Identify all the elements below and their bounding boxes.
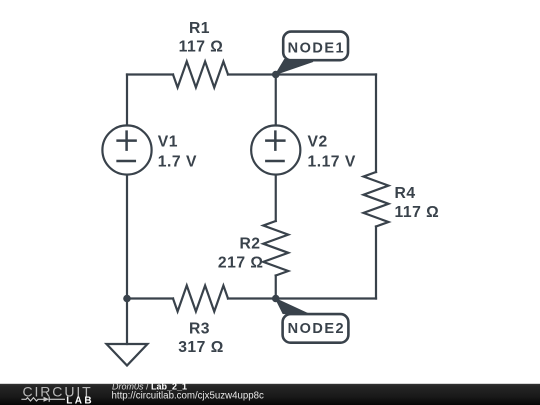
- svg-text:V2: V2: [308, 134, 328, 151]
- svg-text:NODE1: NODE1: [288, 40, 345, 56]
- svg-text:117 Ω: 117 Ω: [395, 204, 440, 221]
- node junction NODE1 dot: [272, 71, 280, 79]
- wire top-right segment: [228, 73, 376, 75]
- svg-text:R4: R4: [395, 185, 416, 202]
- svg-text:LAB: LAB: [66, 396, 94, 405]
- wire top-left segment: [127, 73, 173, 75]
- svg-text:317 Ω: 317 Ω: [178, 339, 224, 356]
- svg-text:117 Ω: 117 Ω: [179, 39, 224, 56]
- wire right branch upper: [375, 75, 377, 173]
- resistor R1: [173, 62, 228, 88]
- svg-text:1.7 V: 1.7 V: [158, 154, 197, 171]
- wire R2 to bottom: [275, 276, 277, 299]
- node NODE2 callout pointer: [276, 299, 313, 316]
- wire V2 to R2: [275, 175, 277, 221]
- svg-text:R3: R3: [189, 321, 210, 338]
- node NODE1 callout pointer: [276, 60, 314, 75]
- footer bar: [0, 384, 540, 405]
- ground: [107, 344, 148, 366]
- wire bottom-right segment: [228, 297, 376, 299]
- resistor R3: [173, 286, 228, 312]
- voltage source V1: [102, 125, 151, 174]
- wire left branch lower: [126, 175, 128, 299]
- logo schematic squiggle: [21, 397, 65, 402]
- wire bottom-left segment: [127, 297, 173, 299]
- resistor R4: [364, 172, 389, 227]
- svg-text:NODE2: NODE2: [288, 321, 345, 337]
- wire left branch upper: [126, 75, 128, 126]
- logo diode triangle: [44, 397, 50, 402]
- node NODE1 callout box: [283, 32, 348, 61]
- wire middle branch upper: [275, 75, 277, 126]
- node NODE2 callout box: [283, 314, 349, 343]
- node junction ground dot: [123, 295, 131, 303]
- wire right branch lower: [375, 227, 377, 299]
- voltage source V2: [251, 125, 300, 174]
- node junction NODE2 dot: [272, 295, 280, 303]
- svg-text:1.17 V: 1.17 V: [308, 154, 356, 171]
- resistor R2: [263, 221, 288, 276]
- svg-text:V1: V1: [158, 134, 178, 151]
- svg-text:R1: R1: [189, 20, 210, 37]
- svg-text:217 Ω: 217 Ω: [218, 255, 264, 272]
- svg-text:http://circuitlab.com/cjx5uzw4: http://circuitlab.com/cjx5uzw4upp8c: [112, 391, 265, 402]
- wire ground stem: [126, 299, 128, 345]
- svg-text:R2: R2: [239, 236, 260, 253]
